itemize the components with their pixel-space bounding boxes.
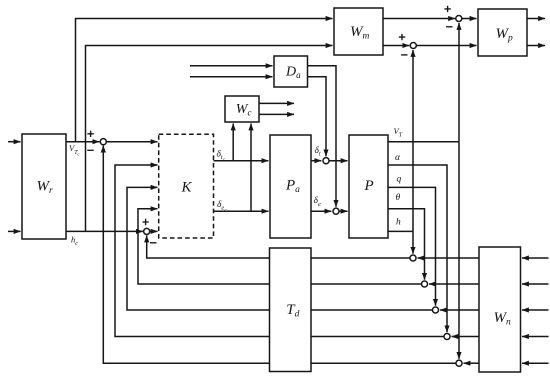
wire Wn output 5 to JN5 [464, 362, 480, 364]
sign minus at JB [401, 54, 407, 56]
summing junction JN2 [421, 281, 427, 287]
summing junction J1 [100, 139, 106, 145]
wire hc branch riser to Wm input 2 [86, 46, 333, 232]
wire q feedback from Td to K input 3 [127, 187, 270, 310]
label P [364, 178, 374, 194]
label Da [285, 65, 301, 81]
label alpha [395, 153, 401, 163]
summing junction JN3 [432, 307, 438, 313]
summing junction JN4 [444, 333, 450, 339]
wire Pa output delta_e to junction Je [311, 210, 331, 212]
label K [181, 180, 193, 196]
wire VTc from Wr to junction J1 [66, 141, 99, 143]
block Wr [22, 134, 66, 239]
sign plus at JB [399, 34, 405, 40]
block Wp [478, 9, 527, 56]
sign plus at J2 [142, 219, 148, 225]
label q [397, 175, 402, 185]
wire h column up to junction JB [412, 50, 414, 231]
summing junction JB [410, 42, 416, 48]
wire branch delta_tc up to Wc [232, 124, 234, 161]
wire P output h to column x413 [388, 230, 413, 232]
label theta [396, 193, 401, 203]
label VTc [69, 143, 80, 156]
wire Wn input 4 [522, 336, 549, 338]
svg-text:h: h [396, 218, 401, 228]
wire theta feedback from Td to K input 4 [138, 209, 270, 284]
svg-text:θ: θ [396, 193, 401, 203]
label Wp [496, 26, 514, 44]
wire JN2 output left into Td [311, 283, 421, 285]
wire Wn input 3 [522, 309, 549, 311]
wire Wp output 1 [527, 18, 545, 20]
wire branch delta_ec up to Wc [250, 124, 252, 212]
wire P output alpha down to junction JN4 [388, 165, 447, 332]
wire alpha feedback from Td to K input 2 [115, 165, 270, 337]
wire VT column down to junction JN5 [458, 142, 460, 359]
wire VT column up to junction JA [458, 23, 460, 142]
wire hc from Wr to junction J2 [66, 230, 143, 232]
wire K output delta_ec to Pa [214, 210, 269, 212]
wire JN1 output left into Td [311, 257, 410, 259]
wire junction Je output to P [339, 210, 347, 212]
wire Wm output 1 to junction JA [383, 18, 455, 20]
sign minus at J2 [150, 242, 157, 244]
label hc [71, 235, 78, 248]
wire Wn output 3 to JN3 [440, 309, 479, 311]
label delta_t [315, 146, 321, 158]
sign minus at J1 [87, 149, 93, 151]
label Wm [350, 24, 370, 42]
wire Wn output 1 to JN1 [418, 257, 480, 259]
wire P output q down to junction JN3 [388, 187, 436, 305]
wire junction JB output to Wp [417, 45, 477, 47]
wire JN3 output left into Td [311, 309, 432, 311]
wire Wn input 5 [522, 362, 549, 364]
wire junction Jt output to P [329, 160, 347, 162]
sign minus at JA [446, 26, 452, 28]
block Wc [225, 96, 259, 122]
wire K output delta_tc to Pa [214, 160, 269, 162]
wire Wr input 2 [8, 230, 21, 232]
block Td [270, 248, 312, 372]
sign plus at JA [444, 6, 450, 12]
wire Wr input 1 [8, 141, 21, 143]
wire VT feedback from Td to junction J1 [103, 146, 269, 364]
block P [349, 135, 388, 238]
wire Da output 1 down to junction Je [308, 66, 337, 207]
wire P output VT to column x459 [388, 141, 459, 143]
label h [396, 218, 401, 228]
wire JN4 output left into Td [311, 336, 444, 338]
summing junction Jt [323, 158, 329, 164]
summing junction J2 [144, 228, 150, 234]
label delta_e [314, 196, 321, 208]
wire junction JA output to Wp [462, 18, 476, 20]
wire Wp output 2 [527, 45, 545, 47]
wire Wc output 2 [259, 113, 294, 115]
wire J1 output into K [107, 141, 158, 143]
summing junction JN5 [456, 360, 462, 366]
block Wn [479, 247, 521, 372]
wire JN5 output left into Td [311, 362, 456, 364]
wire J2 output into K [150, 230, 158, 232]
summing junction JN1 [410, 255, 416, 261]
label Td [286, 302, 299, 320]
block Pa [270, 135, 311, 238]
wire Da output 2 down to junction Jt [308, 77, 327, 157]
wire Wn output 4 to JN4 [452, 336, 480, 338]
block Da [274, 56, 308, 87]
svg-text:K: K [181, 180, 193, 196]
label Wr [37, 178, 54, 196]
wire Pa output delta_t to junction Jt [311, 160, 321, 162]
label VT [394, 126, 403, 139]
wire P output theta down to junction JN2 [388, 209, 425, 280]
wire Wn input 1 [522, 257, 549, 259]
wire Da input 2 [190, 76, 273, 78]
wire Wn input 2 [522, 283, 549, 285]
svg-text:P: P [364, 178, 374, 194]
label Wc [236, 102, 252, 118]
wire Wc output 1 [259, 102, 294, 104]
label delta_ec [217, 200, 227, 213]
wire VTc branch riser to Wm input 1 [76, 19, 333, 142]
wire Da input 1 [190, 65, 273, 67]
label Pa [285, 178, 300, 196]
label Wn [494, 310, 512, 328]
wire h column down to junction JN1 [412, 231, 414, 253]
wire h feedback from Td to junction J2 [147, 236, 270, 259]
label delta_tc [217, 150, 226, 163]
controller K dashed block [159, 134, 214, 238]
summing junction Je [333, 208, 339, 214]
sign plus at J1 [87, 131, 93, 137]
block Wm [334, 8, 383, 55]
summing junction JA [456, 15, 462, 21]
wire Wm output 2 to junction JB [383, 45, 409, 47]
svg-text:q: q [397, 175, 402, 185]
wire Wn output 2 to JN2 [429, 283, 479, 285]
